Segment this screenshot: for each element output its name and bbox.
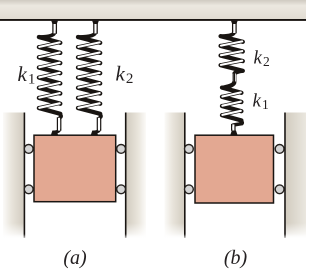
roller bottom-right (b): [275, 185, 284, 194]
wall edge line (b) left: [184, 113, 186, 239]
connecting rod between springs (b): [224, 71, 242, 88]
right wall (b): [286, 113, 306, 239]
spring k2 (a) top anchor and rod: [79, 32, 95, 37]
spring k1 (b) bottom rod and anchor: [233, 120, 242, 125]
wall fill bottom fade: [0, 223, 306, 239]
ceiling (fixed support): [0, 0, 306, 19]
right wall (a): [127, 113, 147, 239]
roller bottom-right (a): [117, 185, 126, 194]
spring k1 (a): [39, 37, 60, 114]
spring k2 (b): [221, 36, 243, 71]
spring k1 (b): [222, 88, 241, 121]
spring k1 (a) bottom rod and anchor: [59, 114, 61, 119]
roller bottom-left (b): [185, 185, 194, 194]
spring k2 (a): [78, 37, 100, 114]
spring k1 (a) top anchor and rod: [40, 32, 55, 37]
wall edge line (b) right: [284, 113, 286, 239]
mass block (b): [195, 135, 274, 203]
wall edge line (a) left: [24, 113, 26, 239]
spring k2 (a) bottom rod and anchor: [99, 114, 101, 119]
mass block (a): [34, 135, 116, 202]
svg-text:(a): (a): [63, 247, 87, 269]
spring k2 (b) top anchor and rod: [222, 32, 235, 37]
wall line end fade: [0, 234, 306, 240]
wall edge line (a) right: [125, 113, 127, 239]
ceiling bottom edge line: [0, 19, 306, 21]
roller top-left (b): [185, 145, 194, 154]
roller top-right (b): [275, 145, 284, 154]
roller top-right (a): [117, 145, 126, 154]
left wall (a): [3, 113, 24, 239]
roller bottom-left (a): [24, 185, 33, 194]
left wall (b): [165, 113, 185, 239]
svg-text:(b): (b): [224, 247, 248, 269]
roller top-left (a): [24, 145, 33, 154]
